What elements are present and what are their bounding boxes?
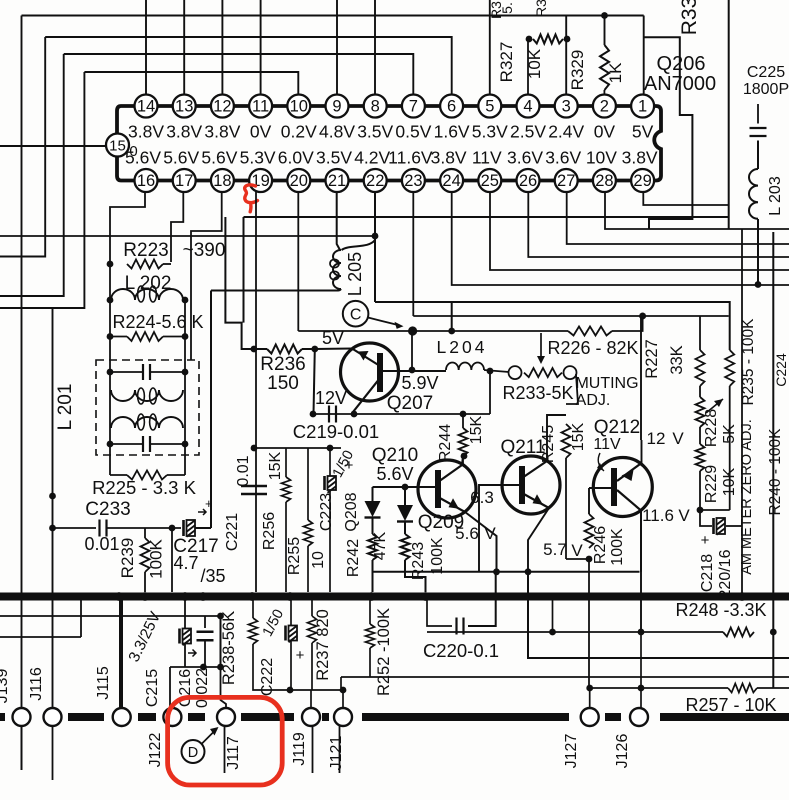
wire node row y=331 bbox=[298, 330, 568, 332]
wire pin 5 riser bbox=[489, 0, 491, 94]
svg-text:C223: C223 bbox=[318, 493, 335, 531]
svg-text:12: 12 bbox=[213, 98, 231, 116]
wire C225 to L203 bbox=[757, 141, 759, 170]
svg-text:Q207: Q207 bbox=[387, 393, 433, 414]
wire pin 19 drop bbox=[255, 192, 257, 593]
svg-text:14: 14 bbox=[137, 98, 155, 116]
svg-text:3.8V: 3.8V bbox=[166, 122, 202, 142]
svg-text:11.6: 11.6 bbox=[642, 506, 674, 525]
wire left vertical x=63.7 bbox=[0, 54, 64, 296]
junction x52 mid bbox=[49, 493, 56, 500]
connector pad J119 bbox=[302, 708, 320, 726]
bus segment (bottom dashed bus) bbox=[362, 713, 569, 721]
junction x742 bus bbox=[739, 593, 746, 600]
wire Q209 collector up bbox=[462, 456, 463, 465]
wire pin 2 riser bbox=[603, 90, 605, 94]
resistor R223 bbox=[127, 260, 163, 269]
svg-text:3.8V: 3.8V bbox=[431, 148, 467, 168]
svg-text:R252 -100K: R252 -100K bbox=[375, 608, 393, 696]
svg-text:2.4V: 2.4V bbox=[548, 122, 584, 142]
junction collector/C219 bbox=[351, 411, 358, 418]
wire C223 top bbox=[329, 448, 331, 476]
wire pin 25 step bbox=[490, 192, 789, 271]
svg-text:15: 15 bbox=[109, 138, 126, 155]
svg-text:R233-5K: R233-5K bbox=[502, 383, 573, 403]
svg-text:5.3V: 5.3V bbox=[472, 122, 508, 142]
svg-text:R327: R327 bbox=[497, 42, 516, 83]
resistor R245 15K bbox=[562, 424, 571, 458]
bus junction x=371.5 bbox=[367, 592, 376, 601]
svg-text:29: 29 bbox=[633, 172, 651, 190]
wire J127 to pad bbox=[589, 688, 591, 708]
wire x=211 column bbox=[210, 291, 212, 529]
resistor R236 bbox=[267, 345, 302, 354]
junction L201 cap1 right bbox=[182, 369, 189, 376]
svg-text:C224: C224 bbox=[773, 353, 789, 387]
wire x220.5 drop bbox=[220, 616, 222, 667]
svg-text:R237 820: R237 820 bbox=[314, 609, 332, 681]
junction y448 right bbox=[327, 445, 334, 452]
resistor R229 10K bbox=[696, 444, 705, 471]
resistor R226 82K bbox=[568, 327, 612, 336]
junction L201 cap1 left bbox=[107, 369, 114, 376]
svg-text:MUTING: MUTING bbox=[575, 375, 638, 392]
pin 3 bbox=[555, 95, 578, 118]
wire C215 column bbox=[184, 600, 186, 629]
resistor R244 15K bbox=[459, 428, 468, 456]
wire right column x=728.7 bbox=[728, 0, 730, 229]
resistor R227 33K bbox=[696, 350, 705, 386]
svg-text:L 201: L 201 bbox=[55, 384, 76, 431]
capacitor C220 bbox=[457, 618, 464, 635]
wire x=773 column bbox=[772, 232, 774, 688]
pin 10 bbox=[287, 95, 310, 118]
bus junction x=145 bbox=[141, 592, 150, 601]
resistor R242 47K bbox=[368, 534, 377, 560]
svg-text:26: 26 bbox=[519, 172, 537, 190]
bus junction x=742 bbox=[738, 592, 747, 601]
wire Q211 base left bbox=[479, 485, 519, 572]
svg-text:1800P: 1800P bbox=[743, 81, 789, 98]
pin 14 bbox=[135, 95, 158, 118]
connector pad J117 bbox=[217, 708, 235, 726]
capacitor C221 bbox=[241, 486, 267, 494]
resistor R257 bbox=[728, 684, 757, 693]
svg-text:R3: R3 bbox=[533, 0, 549, 17]
wire pin 16 step bbox=[110, 192, 145, 266]
diode Q208 a bbox=[365, 487, 381, 534]
wire L201 cap1 left bbox=[110, 371, 143, 373]
wire R238 top bbox=[252, 600, 254, 618]
svg-text:L204: L204 bbox=[437, 337, 488, 357]
resistor R255 bbox=[304, 520, 313, 546]
svg-text:33K: 33K bbox=[668, 345, 686, 374]
potentiometer R233 circle left bbox=[509, 366, 522, 379]
junction L202 right bbox=[182, 297, 189, 304]
wire R236 left chain bbox=[225, 217, 254, 349]
resistor R237 820 bbox=[308, 616, 317, 643]
svg-text:100K: 100K bbox=[147, 538, 166, 578]
wire Q212 base bbox=[589, 487, 611, 489]
junction R236 left bbox=[251, 346, 258, 353]
svg-text:15K: 15K bbox=[468, 415, 485, 444]
wire C215 bottom bbox=[184, 643, 186, 667]
wire R229 bottom bbox=[699, 471, 701, 510]
wire C220 left arm bbox=[427, 600, 452, 626]
IC Q206 outline right with notch bbox=[643, 106, 661, 181]
svg-text:R223: R223 bbox=[123, 240, 168, 261]
wire J126 link bbox=[640, 632, 642, 708]
resistor R243 100K bbox=[401, 534, 410, 560]
resistor R329 1K bbox=[600, 45, 609, 90]
junction C219 left bbox=[310, 411, 317, 418]
svg-text:25: 25 bbox=[481, 172, 499, 190]
wire Q211 emitter drop bbox=[528, 508, 549, 572]
wire left vertical x=45.2 bbox=[0, 37, 45, 257]
pin 25 bbox=[478, 169, 501, 192]
wire C216 bottom bbox=[204, 641, 206, 668]
svg-text:220/16: 220/16 bbox=[717, 549, 734, 598]
bus segment (bottom dashed bus) bbox=[188, 713, 205, 721]
pin 9 bbox=[326, 95, 349, 118]
svg-text:+: + bbox=[296, 647, 305, 664]
wire Q207 base right bbox=[383, 370, 446, 372]
wire R248 left bbox=[644, 631, 723, 633]
wire C216 column top bbox=[204, 616, 206, 628]
wire pin 22 drop bbox=[374, 192, 376, 303]
connector pad J127 bbox=[581, 708, 599, 726]
svg-text:L 202: L 202 bbox=[125, 273, 172, 294]
wire pin 18 step bbox=[191, 192, 222, 361]
svg-text:2: 2 bbox=[600, 98, 609, 116]
capacitor C218 bbox=[714, 518, 726, 535]
wire R252 top bbox=[369, 600, 371, 624]
svg-text:6: 6 bbox=[447, 98, 456, 116]
wire R233 right drop bbox=[566, 374, 578, 404]
svg-text:17: 17 bbox=[175, 172, 193, 190]
svg-text:47K: 47K bbox=[372, 531, 389, 560]
wire bus L3 (y=37, pin 6) bbox=[45, 37, 452, 94]
svg-text:C221: C221 bbox=[224, 513, 241, 551]
junction 5.7V node bbox=[586, 556, 593, 563]
svg-text:24: 24 bbox=[442, 172, 460, 190]
wire pin 17 step bbox=[171, 192, 183, 263]
wire right rail x=185 bbox=[184, 300, 186, 475]
junction R248 left bbox=[549, 629, 556, 636]
wire Q211 collector up bbox=[547, 415, 566, 461]
C217 polarity arrow bbox=[198, 509, 206, 515]
wire R224 ends bbox=[110, 336, 127, 338]
wire R236 right to Q207 emitter bbox=[302, 348, 352, 351]
capacitor C223 bbox=[325, 476, 337, 493]
junction C-node bbox=[408, 326, 417, 335]
svg-text:C215: C215 bbox=[144, 669, 161, 707]
resistor R225 bbox=[127, 471, 167, 480]
wire R237 top bbox=[311, 600, 313, 616]
junction R244/Q209 collector bbox=[461, 453, 468, 460]
bus segment (bottom dashed bus) bbox=[0, 713, 5, 721]
svg-text:4.2V: 4.2V bbox=[354, 148, 390, 168]
svg-text:0.01: 0.01 bbox=[84, 534, 119, 554]
wire J139 drop bbox=[21, 709, 23, 770]
svg-text:AN7000: AN7000 bbox=[644, 73, 716, 95]
resistor R228 5K pot bbox=[696, 397, 705, 427]
junction R236 right bbox=[311, 346, 318, 353]
bus junction x=290 bbox=[286, 592, 295, 601]
inductor L201 coil lower bbox=[111, 414, 183, 430]
red annotation rounded rectangle around J117 bbox=[168, 697, 283, 785]
wire C233 to R239 bbox=[107, 527, 181, 529]
wire R227 top bbox=[699, 316, 701, 350]
wire J117 below pad bbox=[224, 726, 226, 773]
wire R244 bottom bbox=[462, 456, 464, 464]
svg-text:/35: /35 bbox=[200, 566, 225, 586]
svg-text:18: 18 bbox=[213, 172, 231, 190]
wire R235 bottom bbox=[729, 386, 731, 510]
svg-text:R224-5.6 K: R224-5.6 K bbox=[112, 312, 203, 332]
svg-text:AM METER ZERO ADJ.: AM METER ZERO ADJ. bbox=[739, 419, 755, 575]
wire row y=302 bbox=[375, 302, 730, 350]
svg-text:22: 22 bbox=[366, 172, 384, 190]
pin 15 bbox=[106, 134, 129, 157]
junction C233 left bbox=[49, 525, 56, 532]
svg-text:R255: R255 bbox=[286, 537, 303, 575]
svg-text:15K: 15K bbox=[267, 451, 284, 480]
bus segment (bottom dashed bus) bbox=[322, 713, 329, 721]
bus junction x=185 bbox=[181, 592, 190, 601]
thick wire bus to J115 bbox=[119, 598, 123, 709]
wire pin 3 riser bbox=[565, 16, 567, 94]
svg-text:R329: R329 bbox=[568, 50, 587, 91]
svg-text:10: 10 bbox=[290, 98, 308, 116]
svg-text:2.5V: 2.5V bbox=[510, 122, 546, 142]
wire C218 right arm bbox=[726, 525, 742, 527]
svg-text:V: V bbox=[678, 506, 690, 525]
svg-text:C220-0.1: C220-0.1 bbox=[423, 640, 499, 661]
wire R225 left bbox=[110, 474, 127, 476]
wire x243.5 drop bbox=[243, 217, 245, 323]
svg-text:Q210: Q210 bbox=[372, 445, 418, 466]
svg-text:R227: R227 bbox=[643, 339, 661, 378]
bus segment (bottom dashed bus) bbox=[68, 713, 104, 721]
svg-text:3.8V: 3.8V bbox=[128, 122, 164, 142]
junction R329 top bbox=[601, 12, 608, 19]
svg-text:5.6V: 5.6V bbox=[163, 148, 199, 168]
wire pin 13 riser bbox=[183, 0, 185, 94]
wire pin 11 riser bbox=[260, 0, 262, 94]
pin 19 bbox=[249, 169, 272, 192]
wire R329 top bbox=[604, 16, 606, 46]
svg-text:J122: J122 bbox=[147, 733, 164, 768]
pin 20 bbox=[287, 169, 310, 192]
wire bus L5 (y=72, pin 10) bbox=[84, 72, 298, 94]
wire C223 bottom bbox=[329, 490, 331, 592]
pin 12 bbox=[211, 95, 234, 118]
svg-text:5.3V: 5.3V bbox=[240, 148, 276, 168]
svg-text:1.6V: 1.6V bbox=[434, 122, 470, 142]
svg-text:0V: 0V bbox=[594, 122, 616, 142]
wire R244 top bbox=[462, 414, 464, 428]
wire left exit y=616 bbox=[0, 615, 221, 617]
svg-text:R243: R243 bbox=[410, 542, 427, 580]
svg-text:R236: R236 bbox=[260, 354, 305, 375]
svg-text:5.7: 5.7 bbox=[543, 540, 567, 559]
svg-text:R257 - 10K: R257 - 10K bbox=[685, 695, 776, 715]
inductor L204 bbox=[446, 363, 484, 370]
wire pin 27 step bbox=[567, 192, 789, 245]
connector pad J122 bbox=[163, 708, 181, 726]
wire L202 right bbox=[183, 299, 185, 301]
svg-text:R238-56K: R238-56K bbox=[220, 611, 238, 685]
wire 5V node drop bbox=[314, 349, 315, 414]
svg-text:11V: 11V bbox=[593, 436, 621, 453]
svg-text:J126: J126 bbox=[614, 734, 631, 769]
bus segment (bottom dashed bus) bbox=[241, 713, 294, 721]
R228 wiper arrow bbox=[706, 399, 723, 413]
wire J121 drop bbox=[342, 690, 344, 708]
svg-text:C218: C218 bbox=[699, 554, 716, 592]
arrow C to node bbox=[368, 318, 404, 329]
wire pin 24 step bbox=[452, 192, 789, 286]
svg-text:+: + bbox=[701, 532, 710, 549]
svg-text:4.8V: 4.8V bbox=[319, 122, 355, 142]
svg-text:3.6V: 3.6V bbox=[545, 148, 581, 168]
junction y331 x452 bbox=[448, 328, 455, 335]
svg-text:R239: R239 bbox=[118, 538, 137, 579]
svg-text:J116: J116 bbox=[28, 667, 45, 701]
svg-text:0V: 0V bbox=[250, 122, 272, 142]
wire pin 1 riser bbox=[643, 16, 645, 94]
wire pin 4 riser bbox=[527, 39, 529, 94]
L201 dashed box bbox=[96, 360, 199, 455]
svg-text:15K: 15K bbox=[570, 422, 587, 451]
wire bus stub x552 bbox=[552, 600, 554, 632]
svg-text:J117: J117 bbox=[225, 736, 242, 770]
capacitor C215 bbox=[180, 629, 192, 646]
inductor L205 bbox=[330, 250, 341, 289]
svg-text:Q208: Q208 bbox=[343, 492, 360, 531]
pin 15 wire bbox=[0, 145, 106, 147]
IC pin row bottom rail bbox=[146, 179, 643, 183]
wire pin22 node to L205 swoop bbox=[342, 240, 376, 250]
svg-text:R246: R246 bbox=[592, 526, 609, 564]
svg-text:J119: J119 bbox=[291, 732, 308, 766]
svg-text:Q211: Q211 bbox=[500, 437, 545, 458]
pin 28 bbox=[593, 169, 616, 192]
wire J122 riser bbox=[169, 667, 171, 708]
wire L203 bottom bbox=[757, 219, 759, 285]
junction R244 tap bbox=[460, 411, 467, 418]
svg-text:J127: J127 bbox=[563, 734, 580, 769]
svg-text:Q212: Q212 bbox=[594, 417, 640, 438]
junction J127 bbox=[586, 685, 593, 692]
svg-text:27: 27 bbox=[557, 172, 575, 190]
connector pad J126 bbox=[630, 708, 648, 726]
potentiometer R233 circle right bbox=[564, 366, 577, 379]
svg-text:0.022: 0.022 bbox=[194, 668, 211, 708]
wire C217 drop to bus bbox=[171, 528, 173, 592]
wire R238 bottom bbox=[253, 644, 290, 690]
junction y690 a bbox=[287, 687, 294, 694]
connector pad J115 bbox=[113, 708, 131, 726]
svg-text:C233: C233 bbox=[85, 499, 130, 520]
svg-text:11.6V: 11.6V bbox=[388, 148, 433, 168]
power bus (thick) bbox=[0, 593, 789, 601]
wire R255 bottom bbox=[307, 546, 309, 592]
inductor L202 coil bbox=[111, 286, 183, 302]
junction C217 wire bbox=[169, 525, 176, 532]
resistor R246 100K bbox=[585, 514, 594, 548]
svg-text:5V: 5V bbox=[322, 328, 344, 348]
resistor R252 100K bbox=[366, 624, 375, 648]
wire R252 bottom bbox=[369, 648, 371, 677]
resistor R256 bbox=[282, 477, 291, 502]
junction meter node bbox=[697, 507, 704, 514]
wire left exit y=637 bbox=[0, 636, 81, 638]
wire x=641 column lower bbox=[640, 510, 642, 632]
C215 polarity arrow bbox=[188, 650, 196, 657]
wire bus L4 (y=54, pin 7) bbox=[64, 54, 414, 94]
pin 4 bbox=[517, 95, 540, 118]
junction pin22 row bbox=[372, 233, 379, 240]
bus segment (bottom dashed bus) bbox=[605, 713, 621, 721]
bus junction x=425.5 bbox=[421, 592, 430, 601]
svg-text:C225: C225 bbox=[747, 64, 785, 81]
wire pin 21 drop to L205 bbox=[337, 192, 340, 251]
wire pin 29 step bbox=[643, 192, 728, 206]
junction C216 a bbox=[200, 664, 207, 671]
wire R228 to R229 bbox=[699, 427, 701, 444]
wire C-node drop bbox=[411, 331, 413, 370]
svg-text:5.6: 5.6 bbox=[455, 524, 479, 543]
wire row y=688 right bbox=[757, 687, 789, 689]
wire meter node row bbox=[700, 509, 730, 511]
svg-text:4.7: 4.7 bbox=[173, 553, 198, 573]
wire R245 bottom bbox=[565, 458, 567, 559]
svg-text:12: 12 bbox=[647, 429, 666, 448]
pin 2 bbox=[593, 95, 616, 118]
wire Q212 collector down bbox=[640, 511, 642, 572]
wire pin 8 riser bbox=[374, 0, 376, 94]
svg-text:J139: J139 bbox=[0, 669, 11, 704]
resistor R239 bbox=[141, 538, 150, 572]
connector circle D with arrow bbox=[182, 727, 219, 763]
junction R223 left bbox=[107, 261, 114, 268]
IC U-Q206 outline left bbox=[117, 106, 146, 181]
pin 29 bbox=[631, 169, 654, 192]
wire row y=448 bbox=[254, 447, 341, 449]
capacitor C222 bbox=[286, 626, 298, 643]
svg-text:100K: 100K bbox=[429, 537, 446, 575]
svg-text:16: 16 bbox=[137, 172, 155, 190]
svg-text:R225 - 3.3 K: R225 - 3.3 K bbox=[92, 477, 197, 498]
wire row y=677 bbox=[341, 676, 789, 678]
pin 24 bbox=[440, 169, 463, 192]
junction y448 left bbox=[251, 445, 258, 452]
svg-text:9: 9 bbox=[332, 98, 341, 116]
wire x452 link bbox=[451, 302, 453, 331]
wire pin 14 riser bbox=[145, 0, 147, 94]
wire row y=688 left bbox=[590, 687, 728, 689]
wire R246 bottom drop bbox=[588, 559, 590, 688]
svg-text:5.9V: 5.9V bbox=[401, 373, 438, 393]
wire C222 top bbox=[290, 600, 292, 626]
wire row y=217 bbox=[244, 216, 729, 218]
capacitor in L201 top bbox=[143, 364, 150, 380]
svg-text:D: D bbox=[188, 745, 198, 761]
svg-text:L 203: L 203 bbox=[767, 176, 784, 216]
bus junction x=119 bbox=[115, 592, 124, 601]
